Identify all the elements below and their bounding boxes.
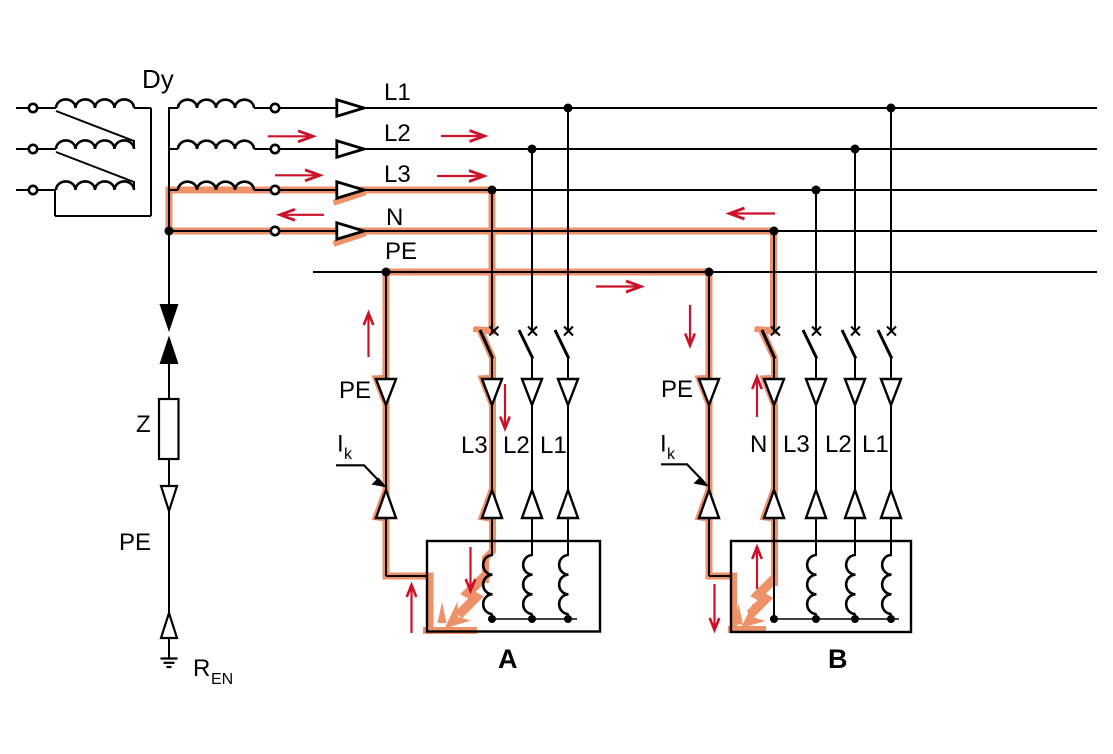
switch contact mark L1-B [887, 327, 896, 336]
svg-text:I: I [660, 431, 667, 458]
fault current highlight: wedge under N feeder arrow [334, 233, 366, 244]
wire N bus [169, 230, 1097, 232]
switch contact mark N-B [771, 327, 780, 336]
impedance Z (rectangle) [159, 399, 179, 459]
node L3 tap load B [812, 186, 821, 195]
connector triangle (down) on L1-A [558, 379, 578, 405]
transformer secondary terminal L3 [271, 186, 279, 194]
current arrow up inside load B [752, 547, 762, 589]
fault current highlight: wedge on upper connector triangle of PE-A [376, 374, 387, 406]
wire L1 bus [255, 107, 1097, 109]
fault current highlight: wedge on upper connector triangle of PE-B [699, 374, 710, 406]
transformer T1 primary winding phase 1 (delta) [16, 99, 151, 108]
connector triangle (up) on PE-B [699, 490, 719, 518]
wire L1 drop to load A (above switch) [567, 108, 569, 332]
node L3 tap load A [488, 186, 497, 195]
junction dot load B winding L1 [887, 615, 895, 623]
fault current highlight: tick at closed switch of N-B [755, 327, 763, 332]
svg-text:L1: L1 [384, 79, 411, 106]
load A star bus [492, 618, 577, 620]
svg-text:R: R [193, 655, 210, 682]
svg-text:A: A [498, 644, 518, 674]
wire spark gap to impedance Z [168, 364, 170, 400]
node L1 tap load A [564, 104, 573, 113]
connector triangle (up) on L2-B [845, 490, 865, 518]
fault current highlight: L3 feeder from transformer to node at x=492 [169, 190, 492, 231]
ground symbol R_EN earth electrode [161, 659, 178, 668]
wire L3 drop to load B (above switch) [815, 190, 817, 332]
fault current highlight: wedge on lower connector triangle of N-B [764, 490, 774, 523]
svg-text:PE: PE [119, 529, 151, 556]
wire PE drop to load B [709, 272, 732, 576]
fault current highlight: N conductor from star point to load B tap [166, 228, 777, 235]
connector triangle (down) on L3-B [806, 379, 826, 405]
transformer T1 delta link right side [55, 108, 151, 216]
wire L3 drop to load A (below switch) [491, 358, 493, 556]
current arrow up on N drop B [752, 377, 762, 417]
fault current highlight: wedge on lower connector triangle of PE-A [376, 490, 386, 523]
wire triangle to earth electrode [168, 638, 170, 658]
junction dot load B neutral [770, 615, 778, 623]
wire L3 bus [255, 189, 1097, 191]
connector triangle (down) on L3-A [482, 379, 502, 405]
node N tap load B [770, 227, 779, 236]
svg-text:L1: L1 [540, 432, 567, 459]
wire L1 drop to load B (above switch) [890, 108, 892, 332]
connector triangle (up) on L1-A [558, 490, 578, 518]
switch blade L1-B (open) [878, 330, 892, 359]
Ik leader arrow load A [336, 465, 387, 487]
connector triangle (down) on L2-A [522, 379, 542, 405]
fault current highlight: PE bus between load A and load B [386, 269, 709, 276]
current arrow left on N (near load B) [730, 208, 776, 219]
current arrow down on L3 drop A [500, 384, 510, 429]
transformer T1 primary terminal 2 [29, 145, 37, 153]
feeder direction arrow on N bus [337, 223, 364, 239]
svg-text:PE: PE [661, 376, 693, 403]
feeder direction arrow on L3 bus [337, 182, 364, 198]
Ik leader arrow load B [661, 464, 709, 486]
transformer T1 primary winding phase 3 (delta) [16, 181, 134, 190]
connector triangle (up) on N-B [764, 490, 784, 518]
wire PE drop to load A [386, 272, 428, 576]
svg-text:k: k [344, 446, 353, 463]
transformer T1 primary winding phase 2 (delta) [16, 140, 134, 149]
svg-text:N: N [386, 204, 403, 231]
label Ik fault current B [660, 431, 676, 464]
connector triangle (up) on L2-A [522, 490, 542, 518]
junction dot load A winding L2 [528, 615, 536, 623]
fault arc arrow (lightning bolt) in load A from L3 winding to frame [438, 574, 488, 629]
connector triangle (up) on L1-B [881, 490, 901, 518]
switch blade N-B (closed) [762, 330, 775, 359]
svg-text:PE: PE [385, 238, 417, 265]
transformer T1 secondary winding L3 (wye) [169, 182, 258, 190]
connector triangle (down) on earthing conductor [161, 486, 177, 511]
node L1 tap load B [887, 104, 896, 113]
current arrow up on PE drop A [364, 313, 374, 357]
wire PE bus [313, 271, 1097, 273]
connector triangle (down) on L1-B [881, 379, 901, 405]
load A motor winding L3 [483, 555, 492, 619]
wire L2 bus [255, 148, 1097, 150]
wire Z to connector triangle [168, 459, 170, 487]
switch blade L3-B (open) [803, 330, 817, 359]
fault current highlight: wedge under L3 feeder arrow [334, 192, 366, 203]
svg-text:L3: L3 [384, 161, 411, 188]
svg-text:PE: PE [339, 377, 371, 404]
fault current highlight: PE conductor drop for load B and bond to frame [709, 269, 766, 630]
label Ik fault current A [337, 431, 353, 464]
transformer T1 delta diagonal 2 [56, 152, 134, 190]
transformer T1 delta diagonal 1 [56, 111, 134, 149]
connector triangle (down) on N-B [764, 379, 784, 405]
transformer secondary terminal N [271, 227, 279, 235]
switch contact mark L1-A [564, 327, 573, 336]
svg-text:Dy: Dy [142, 64, 174, 94]
current arrow right on L2 (mid) [441, 131, 485, 142]
svg-text:B: B [828, 644, 848, 674]
switch contact mark L3-B [812, 327, 821, 336]
wire PE earthing conductor [168, 511, 170, 614]
spark gap / breakdown device (double filled triangle) [160, 304, 179, 364]
load B motor winding L3 [807, 555, 816, 619]
transformer T1 primary terminal 1 [29, 104, 37, 112]
transformer T1 secondary star point vertical [168, 107, 170, 232]
connector triangle (down) on PE-A [376, 379, 396, 405]
connector triangle (down) on PE-B [699, 379, 719, 405]
fault current highlight: tick at closed switch of L3-A [473, 327, 481, 332]
switch blade L1-A (open) [555, 330, 569, 359]
junction dot load B winding L3 [812, 615, 820, 623]
svg-text:L3: L3 [783, 431, 810, 458]
wire L3 drop to load B (below switch) [815, 358, 817, 556]
svg-text:L2: L2 [825, 431, 852, 458]
load B motor winding L1 [882, 555, 891, 619]
switch blade L2-A (open) [519, 330, 533, 359]
svg-text:L1: L1 [862, 431, 889, 458]
svg-text:I: I [337, 431, 344, 458]
wire from star point down to spark gap [168, 231, 170, 305]
wire N drop to load B (above switch) [773, 231, 775, 332]
fault current highlight: wedge on lower connector triangle of L3-A [482, 490, 492, 523]
current arrow right on PE bus [596, 281, 641, 292]
switch blade L3-A (closed) [480, 330, 493, 359]
switch blade L2-B (open) [842, 330, 856, 359]
load A motor winding L2 [523, 555, 532, 619]
svg-text:EN: EN [211, 671, 233, 688]
svg-text:L2: L2 [384, 120, 411, 147]
node star point N [165, 227, 174, 236]
current arrow right on L3 (left) [275, 170, 320, 181]
fault current highlight: wedge on lower connector triangle of PE-B [699, 490, 709, 523]
fault current highlight: wedge on upper connector triangle of L3-A [482, 374, 493, 406]
svg-text:L2: L2 [503, 432, 530, 459]
connector triangle (up) on L3-B [806, 490, 826, 518]
load A enclosure box [427, 541, 600, 632]
fault current highlight: N drop into load B with closed switch jog [762, 228, 775, 586]
feeder direction arrow on L2 bus [337, 141, 364, 157]
fault arc arrow (lightning bolt) in load B from N conductor to frame [735, 578, 776, 629]
wire L1 drop to load A (below switch) [567, 358, 569, 556]
load A motor winding L1 [559, 555, 568, 619]
wire L1 drop to load B (below switch) [890, 358, 892, 556]
svg-text:Z: Z [136, 411, 151, 438]
switch contact mark L2-A [528, 327, 537, 336]
wire L2 drop to load B (above switch) [854, 149, 856, 332]
node L2 tap load A [528, 145, 537, 154]
feeder direction arrow on L1 bus [337, 100, 364, 116]
switch contact mark L3-A [489, 327, 498, 336]
current arrow left on N (left) [280, 209, 324, 220]
junction dot load A winding L1 [564, 615, 572, 623]
junction dot load A winding L3 [488, 615, 496, 623]
load B star bus [774, 618, 899, 620]
svg-text:N: N [750, 431, 767, 458]
transformer T1 secondary winding L2 (wye) [169, 141, 258, 149]
transformer T1 primary terminal 3 [29, 186, 37, 194]
fault current highlight: PE conductor drop for load A and bond to frame [386, 269, 477, 631]
transformer secondary terminal L1 [271, 104, 279, 112]
current arrow right on L3 (mid) [437, 171, 484, 182]
fault current highlight: L3 drop into load A with closed switch jog and coil hug [480, 187, 493, 583]
connector triangle (up) on PE-A [376, 490, 396, 518]
current arrow up beside load A frame [407, 585, 417, 633]
wire L2 drop to load B (below switch) [854, 358, 856, 556]
load B motor winding L2 [846, 555, 855, 619]
wire L2 drop to load A (above switch) [531, 149, 533, 332]
svg-text:L3: L3 [461, 432, 488, 459]
connector triangle (down) on L2-B [845, 379, 865, 405]
node PE tap load A [382, 268, 391, 277]
transformer T1 secondary winding L1 (wye) [169, 100, 258, 108]
transformer secondary terminal L2 [271, 145, 279, 153]
current arrow down on PE drop B [685, 305, 695, 346]
junction dot load B winding L2 [851, 615, 859, 623]
node PE tap load B [705, 268, 714, 277]
current arrow down beside load B frame [710, 584, 720, 630]
current arrow down inside load A [466, 547, 476, 591]
current arrow right on L2 (left) [268, 131, 313, 142]
label R_EN earth resistance [193, 655, 233, 688]
fault current highlight: wedge on upper connector triangle of N-B [764, 374, 775, 406]
wire L2 drop to load A (below switch) [531, 358, 533, 556]
connector triangle (up) on earthing conductor [161, 613, 177, 638]
wire N drop to load B (below switch, to star bus) [773, 358, 775, 619]
switch contact mark L2-B [851, 327, 860, 336]
wire L3 drop to load A (above switch) [491, 190, 493, 332]
svg-text:k: k [667, 446, 676, 463]
node L2 tap load B [851, 145, 860, 154]
load B enclosure box [731, 541, 911, 632]
connector triangle (up) on L3-A [482, 490, 502, 518]
